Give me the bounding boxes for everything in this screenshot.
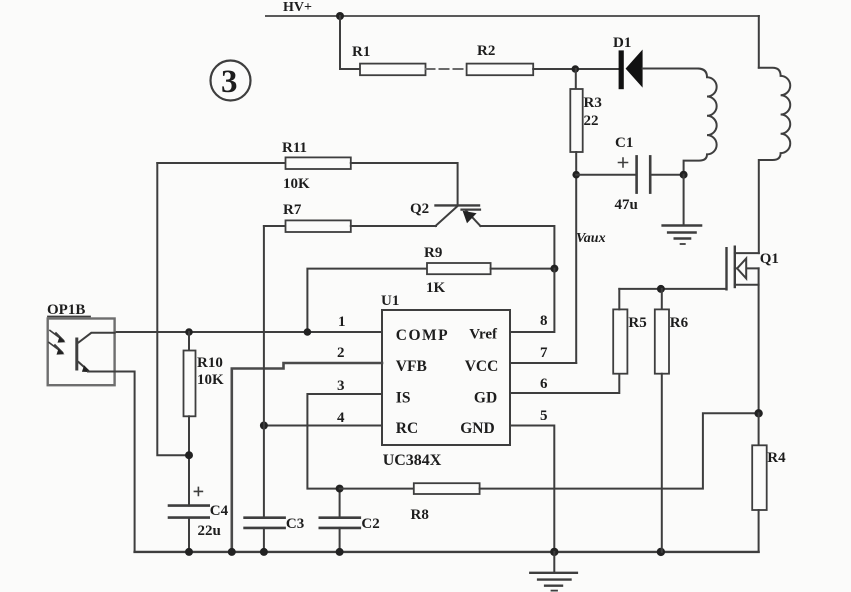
label circled 3	[211, 61, 251, 101]
wire rail drop to primary winding	[758, 16, 760, 68]
svg-text:R10: R10	[197, 355, 223, 371]
svg-text:Vaux: Vaux	[576, 231, 606, 246]
resistor R1	[360, 64, 426, 76]
svg-text:R1: R1	[352, 44, 370, 60]
capacitor C3	[245, 516, 305, 552]
svg-text:2: 2	[337, 345, 345, 361]
svg-text:R8: R8	[411, 507, 429, 523]
resistor R2	[467, 64, 534, 76]
svg-text:R7: R7	[283, 202, 302, 218]
wire GND pin5 to ground rail	[510, 426, 554, 552]
svg-text:4: 4	[337, 410, 345, 426]
wire RC pin4 to C3 node	[264, 425, 382, 427]
svg-text:22: 22	[584, 113, 599, 129]
wire Q2 right to Vref node	[480, 226, 554, 269]
svg-text:COMP: COMP	[396, 327, 449, 344]
node junction IS/R8/C2	[336, 485, 344, 493]
node junction rail/VFB leg	[228, 548, 236, 556]
svg-text:C4: C4	[210, 503, 229, 519]
wire C1 node to ground	[683, 175, 685, 225]
svg-text:6: 6	[540, 376, 548, 392]
resistor R11	[157, 140, 350, 192]
svg-text:5: 5	[540, 408, 548, 424]
svg-text:C3: C3	[286, 516, 304, 532]
svg-text:GD: GD	[474, 390, 497, 407]
svg-text:3: 3	[221, 64, 238, 100]
resistor R4	[752, 413, 786, 552]
node junction R2/R3/D1	[572, 65, 580, 73]
wire Vaux vertical R3 to VCC pin7	[575, 152, 577, 363]
svg-text:C2: C2	[361, 516, 379, 532]
svg-text:R4: R4	[767, 450, 786, 466]
svg-text:R2: R2	[477, 43, 495, 59]
svg-text:10K: 10K	[283, 176, 310, 192]
svg-text:IS: IS	[396, 390, 411, 407]
svg-text:R6: R6	[670, 315, 689, 331]
optocoupler OP1B	[47, 302, 115, 385]
svg-text:R5: R5	[628, 315, 646, 331]
node junction rail/R6	[657, 548, 665, 556]
node junction R9/Q2/Vref	[550, 265, 558, 273]
wire R7/C3 vertical	[263, 226, 265, 518]
svg-text:D1: D1	[613, 35, 631, 51]
ground under C1	[663, 226, 702, 245]
wire COMP pin1 from optocoupler	[115, 331, 382, 333]
node junction rail/R10-C4	[185, 548, 193, 556]
capacitor C2	[320, 489, 380, 552]
wire R1 to R2	[426, 68, 467, 70]
svg-text:Vref: Vref	[469, 327, 498, 343]
wire R2 to R3 node and D1	[533, 68, 619, 70]
svg-text:1: 1	[338, 314, 346, 330]
node junction HV+/R1	[336, 12, 344, 20]
svg-text:VFB: VFB	[396, 358, 427, 375]
svg-text:R9: R9	[424, 245, 442, 261]
wire VFB pin2 stepped to ground rail	[232, 363, 382, 552]
svg-text:UC384X: UC384X	[383, 452, 442, 469]
svg-text:3: 3	[337, 378, 345, 394]
svg-text:RC: RC	[396, 420, 418, 437]
node junction COMP/R10	[185, 328, 193, 336]
wire IS pin3 to R8/C2 node	[307, 394, 382, 489]
resistor R3	[570, 69, 602, 152]
node junction RC/R7/C3	[260, 422, 268, 430]
wire D1 anode to aux winding	[643, 68, 698, 70]
node junction R3/C1	[572, 171, 580, 179]
node junction gate/R6	[657, 285, 665, 293]
wire gate line R5/R6 to Q1 gate	[619, 288, 726, 290]
transistor Q2	[410, 201, 480, 226]
node junction rail/C3	[260, 548, 268, 556]
svg-text:R11: R11	[282, 140, 307, 156]
svg-text:22u: 22u	[198, 523, 221, 539]
svg-text:10K: 10K	[197, 372, 224, 388]
svg-text:1K: 1K	[426, 280, 446, 296]
node junction COMP/R9	[304, 328, 312, 336]
svg-text:7: 7	[540, 345, 548, 361]
svg-text:8: 8	[540, 313, 548, 329]
inductor primary winding T1b	[759, 68, 790, 253]
svg-text:47u: 47u	[615, 197, 638, 213]
wire R11 right to Q2 base	[351, 163, 458, 205]
resistor R6	[655, 289, 689, 552]
wire GD pin6 to R5	[510, 374, 619, 393]
node junction rail/C2	[336, 548, 344, 556]
svg-text:HV+: HV+	[283, 0, 312, 15]
resistor R10	[184, 332, 225, 506]
node junction R10/R11 leg	[185, 451, 193, 459]
node junction Q1 source/R4/sense	[754, 409, 762, 417]
node junction rail/GND pin5	[550, 548, 558, 556]
svg-text:Q2: Q2	[410, 201, 429, 217]
wire R8 right to Q1 source node	[480, 413, 759, 488]
resistor R7	[264, 202, 436, 232]
svg-text:C1: C1	[615, 135, 633, 151]
svg-text:GND: GND	[460, 420, 494, 437]
wire VCC pin7 to Vaux	[510, 362, 576, 364]
svg-text:U1: U1	[381, 293, 399, 309]
wire HV+ top rail	[266, 15, 759, 17]
resistor R5	[613, 289, 647, 374]
capacitor C1	[576, 135, 683, 213]
wire R11 left leg down to R10 bottom node	[157, 163, 189, 455]
svg-text:R3: R3	[584, 95, 602, 111]
node junction C1/winding/ground	[680, 171, 688, 179]
resistor R8	[340, 483, 480, 523]
resistor R9	[307, 245, 554, 332]
op-amp U1 UC384X chip body	[381, 293, 510, 469]
wire HV+ node down to R1	[340, 16, 360, 69]
wire ground rail bottom	[135, 551, 759, 553]
capacitor C4	[169, 487, 229, 552]
wire opto emitter down to ground rail	[115, 372, 135, 552]
wire Vref pin8 riser	[510, 269, 554, 332]
diode D1	[613, 35, 643, 89]
ground main symbol	[530, 552, 577, 591]
svg-text:VCC: VCC	[465, 358, 499, 375]
inductor aux winding T1a	[684, 69, 717, 175]
transistor Q1 MOSFET	[727, 247, 779, 414]
svg-text:Q1: Q1	[760, 251, 779, 267]
